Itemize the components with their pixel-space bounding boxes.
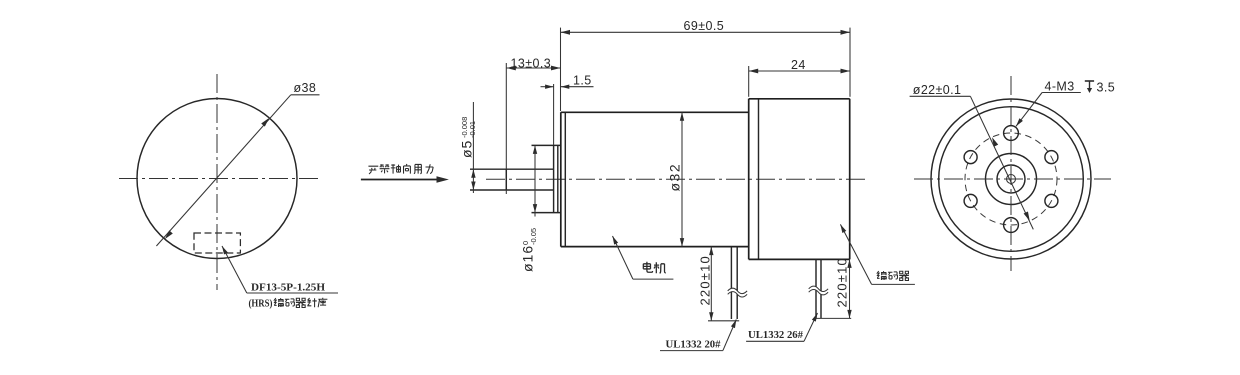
svg-text:(HRS): (HRS): [249, 298, 273, 310]
svg-text:DF13-5P-1.25H: DF13-5P-1.25H: [251, 282, 325, 294]
svg-text:24: 24: [791, 58, 806, 72]
svg-text:1.5: 1.5: [573, 74, 592, 88]
svg-text:UL1332 26#: UL1332 26#: [748, 329, 803, 341]
svg-text:ø38: ø38: [294, 81, 317, 95]
svg-text:ø32: ø32: [667, 163, 683, 192]
svg-text:-0.01: -0.01: [468, 121, 477, 138]
svg-text:ø22±0.1: ø22±0.1: [913, 83, 962, 97]
svg-text:-0.05: -0.05: [529, 228, 538, 245]
svg-text:ø5: ø5: [459, 140, 475, 158]
svg-text:13±0.3: 13±0.3: [511, 56, 552, 70]
svg-text:220±10: 220±10: [835, 257, 850, 308]
svg-text:69±0.5: 69±0.5: [684, 19, 725, 33]
svg-text:ø16: ø16: [520, 245, 536, 272]
svg-text:220±10: 220±10: [698, 255, 713, 306]
svg-text:UL1332 20#: UL1332 20#: [666, 338, 721, 350]
svg-text:3.5: 3.5: [1097, 81, 1116, 95]
svg-text:4-M3: 4-M3: [1045, 80, 1075, 94]
